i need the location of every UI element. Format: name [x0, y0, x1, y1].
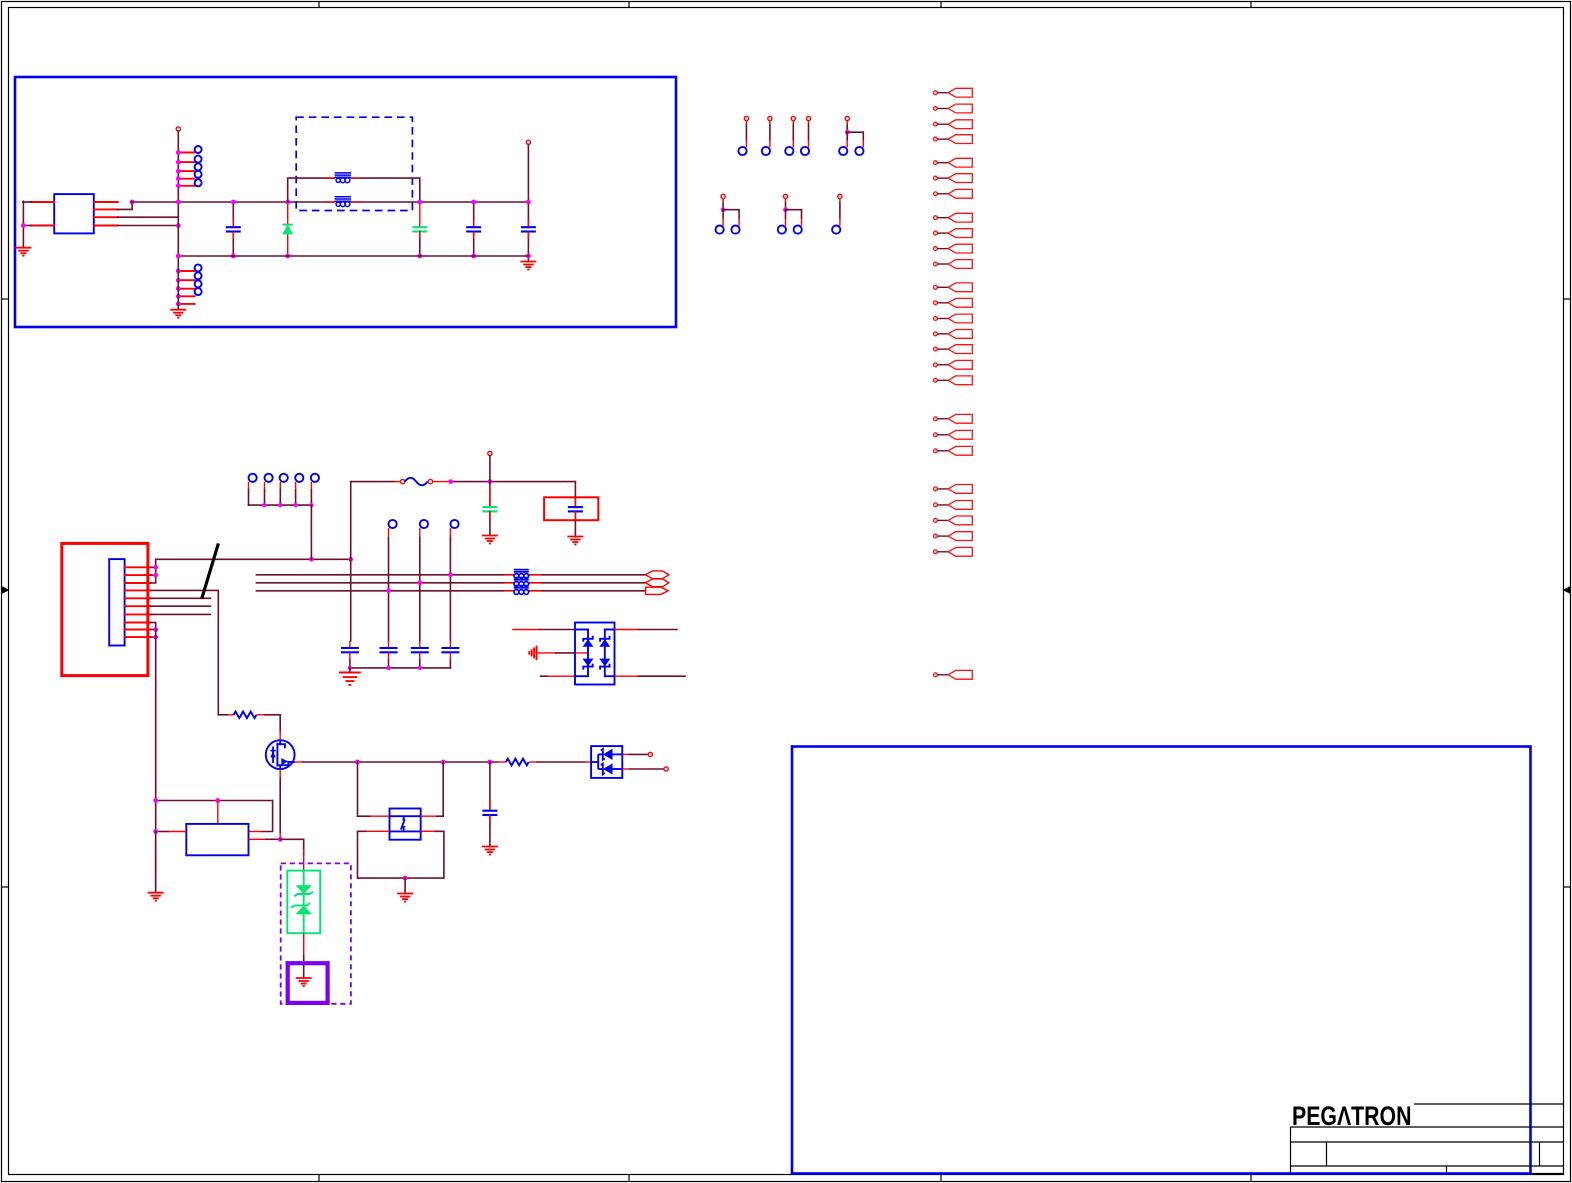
capacitor CF1: [349, 641, 351, 648]
zone tick top 1: [318, 1, 320, 8]
mount hole MH1: [744, 116, 748, 120]
wire TP6 drop: [388, 538, 390, 641]
center arrow left: [2, 586, 10, 594]
capacitor CY (green): [482, 507, 497, 511]
net flag 19: [934, 414, 973, 423]
TP6-8 red leads: [389, 528, 451, 538]
node junction bus drop: [309, 557, 314, 562]
net flag 21: [934, 446, 973, 455]
zone tick top 2: [628, 1, 630, 8]
wire pin7 line (cut): [150, 613, 210, 615]
title block line top: [1414, 1103, 1564, 1105]
net arrow tag 3: [646, 587, 668, 594]
node junction opto gnd: [403, 876, 408, 881]
node junction fuse out: [448, 479, 453, 484]
wire CN1 pin4 stub: [94, 225, 118, 227]
wire regulator top run: [156, 800, 273, 802]
wire U2 left pin: [168, 831, 186, 833]
mount hole MH5 (double): [845, 116, 849, 120]
opto inner marks: [401, 816, 405, 831]
choke T1 upper winding: [335, 173, 351, 183]
net flag 11: [934, 260, 973, 269]
wire AC top run: [156, 558, 351, 560]
wire top rail: [131, 201, 335, 203]
transistor Q1 (MOSFET): [266, 740, 295, 769]
net flag 24: [934, 516, 973, 525]
wire TP7 drop: [419, 538, 421, 641]
fuse F1: [400, 479, 404, 483]
wire pin5 line (cut): [150, 597, 210, 599]
node junction filter drop: [348, 557, 353, 562]
node junction pin2: [153, 573, 158, 578]
zener pack body (green): [287, 871, 320, 934]
Q1 body diode: [270, 751, 275, 758]
red box (X-cap): [544, 497, 598, 520]
resistor R2 (output): [498, 761, 506, 763]
inductor L2 stubs: [178, 271, 194, 304]
TP red leads: [249, 482, 312, 490]
node dots TP bus: [262, 503, 313, 507]
node junction C3 top: [471, 200, 476, 205]
wire zener to purple ground: [303, 933, 305, 956]
bridge diode top-right: [599, 639, 610, 647]
net flag 1: [934, 88, 973, 97]
CN2 pin stubs: [125, 567, 151, 637]
wire left vertical down: [155, 630, 157, 893]
terminal circle top of L1: [176, 127, 180, 131]
wire 3phase line2: [256, 582, 513, 584]
net flag 9: [934, 229, 973, 238]
ground G2: [520, 262, 536, 270]
zone tick right 1: [1564, 298, 1572, 300]
node junction U2 ref: [215, 798, 220, 803]
wire Q1 bottom: [279, 769, 281, 778]
ground G4: [482, 536, 498, 544]
opto U3 body: [390, 809, 421, 840]
resistor R1 (gate): [218, 714, 227, 716]
zener center line: [303, 871, 305, 934]
connector CN1 body: [54, 194, 94, 233]
net flag 15: [934, 330, 973, 339]
node dots L1: [176, 150, 181, 188]
net flag 20: [934, 430, 973, 439]
wire pin8-10 tie: [150, 623, 155, 630]
wire 3phase line3: [256, 590, 513, 592]
Q1 arrow: [281, 758, 288, 765]
net flag 25: [934, 532, 973, 541]
mount hole MH3: [791, 116, 795, 120]
mount hole MH8: [838, 194, 842, 198]
node junction pin9: [153, 627, 158, 632]
capacitor C1: [232, 202, 234, 227]
choke T1 lower winding: [335, 197, 351, 207]
wire Q1 source right: [295, 761, 304, 763]
choke T2 red stubs: [505, 575, 542, 591]
test point circles TP6-TP8: [389, 520, 459, 528]
wire Y-cap vertical: [489, 456, 491, 508]
net flag 3: [934, 120, 973, 129]
ground G9: [397, 894, 413, 902]
terminal circle right: [526, 140, 530, 144]
capacitor CF3: [419, 641, 421, 648]
test point circles TP1-TP5: [249, 474, 320, 482]
terminal circle out bottom: [664, 767, 668, 771]
wire TP8 drop: [449, 538, 451, 641]
title block bottom right line: [1531, 1173, 1564, 1175]
node junction line2-TP7: [417, 580, 422, 585]
zone tick left 1: [1, 298, 9, 300]
wire left drop to ground: [22, 201, 24, 248]
zone tick top 3: [940, 1, 942, 8]
node junction bottom-rail left: [176, 254, 181, 259]
ground G1: [15, 248, 31, 256]
net flag 16: [934, 345, 973, 354]
net flag 8: [934, 213, 973, 222]
diode D1 (green TVS): [287, 202, 289, 225]
connector CN2 red box: [62, 543, 148, 675]
zone tick bottom 2: [628, 1175, 630, 1183]
node junction Y-cap tap: [488, 479, 493, 484]
zone tick bottom 1: [318, 1175, 320, 1183]
wire choke loop: [288, 178, 335, 202]
wire MOSFET drain drop: [279, 715, 281, 731]
bridge out bottom: [615, 675, 639, 677]
zener D3: [296, 905, 312, 914]
net flag 14: [934, 314, 973, 323]
wire TP bus drop: [310, 505, 312, 559]
node junction C3 bottom: [471, 254, 476, 259]
zone tick bottom 3: [940, 1175, 942, 1183]
wire pin6 line (cut): [150, 605, 210, 607]
bridge diode top-left: [583, 639, 594, 647]
terminal circle above Y-cap: [488, 451, 492, 455]
regulator U2 body: [186, 824, 248, 855]
purple box: [288, 963, 328, 1003]
wire right terminal drop: [527, 144, 529, 227]
node junction C4 bottom: [526, 254, 531, 259]
wire to zener: [280, 839, 304, 855]
title block line mid: [1291, 1141, 1564, 1143]
zone tick right 2: [1564, 886, 1572, 888]
net arrow tag 1: [645, 571, 669, 579]
terminal circle out top: [648, 752, 652, 756]
capacitor CX: [568, 507, 583, 511]
choke T1 upper red stubs: [326, 177, 335, 179]
wire CN1 pin2 stub: [94, 208, 118, 210]
wire chassis to bridge: [537, 652, 557, 654]
blue box 2 (notes area): [792, 747, 1531, 1174]
node junction left rail top: [153, 798, 158, 803]
node junction U2 out: [278, 837, 283, 842]
net flag 6: [934, 174, 973, 183]
capacitor C5: [489, 762, 491, 811]
wire U2 out pin: [249, 838, 267, 840]
title block line under logo: [1291, 1126, 1564, 1128]
wire CN1 pin3 stub: [94, 216, 118, 218]
net flag 5: [934, 158, 973, 167]
zone tick left 2: [1, 886, 9, 888]
wire fuse out: [433, 481, 451, 483]
ground G5: [567, 537, 583, 545]
ground G8 (in purple box): [296, 978, 312, 986]
cut slash mark: [202, 543, 219, 598]
title block small tick: [1446, 1166, 1448, 1174]
zone tick bottom 4: [1250, 1175, 1252, 1183]
node junction pin1: [153, 565, 158, 570]
net flag 2: [934, 104, 973, 113]
diode pack DB1 body: [591, 746, 622, 778]
zone tick top 4: [1250, 1, 1252, 8]
wire U2 ref drop: [217, 801, 219, 824]
net arrow tag 2: [645, 579, 669, 587]
bridge BD1 feed bottom: [541, 675, 548, 677]
mount hole MH2: [768, 116, 772, 120]
capacitor C4: [527, 220, 529, 227]
choke T2 winding c: [514, 586, 529, 595]
wire opto top-right: [421, 815, 437, 817]
node junction C1 top: [231, 200, 236, 205]
wire pin4 to riser: [118, 225, 179, 227]
choke T1 lower red stubs: [326, 201, 335, 203]
capacitor C2 (green): [419, 202, 421, 227]
capacitor C3: [473, 202, 475, 227]
opto inner dividers: [390, 815, 421, 817]
node junction line1-TP8: [448, 572, 453, 577]
net flag 22: [934, 485, 973, 494]
bridge diode bottom-left: [583, 659, 594, 667]
node junction source net c: [488, 760, 493, 765]
wire DB1 out top: [622, 753, 630, 755]
inductor L2 coils: [195, 264, 202, 295]
net flag 18: [934, 376, 973, 385]
mount hole MH6 (double): [721, 194, 725, 198]
title block left vertical: [1290, 1127, 1292, 1174]
net flag 7: [934, 189, 973, 198]
node junction C4 top: [526, 200, 531, 205]
inductor L1 stubs: [178, 153, 194, 186]
connector CN2 body: [109, 559, 124, 645]
node junction left rail mid: [153, 829, 158, 834]
bridge inner legs: [575, 630, 615, 677]
mount hole MH7 (double): [783, 194, 787, 198]
node junction: [21, 223, 26, 228]
wire DB1 out bottom: [622, 768, 630, 770]
node junction D1 top: [285, 200, 290, 205]
node junction line3-TP6: [386, 588, 391, 593]
node junction source net a: [355, 760, 360, 765]
inductor L1 coils: [195, 146, 202, 186]
capacitor CF2: [388, 641, 390, 648]
node junction source net b: [441, 760, 446, 765]
node dots L2: [176, 269, 181, 307]
wire L2 vertical to ground: [177, 256, 179, 310]
choke T2 winding a: [514, 570, 529, 579]
chassis ground: [529, 646, 536, 661]
ground G3: [170, 310, 186, 318]
capacitor CF4: [449, 641, 451, 648]
wire TP bus: [249, 504, 312, 506]
node junction D1 bottom: [285, 254, 290, 259]
node junction pin4: [176, 223, 181, 228]
zener D2: [296, 885, 312, 894]
dashed purple box: [281, 863, 351, 1003]
mount hole MH4: [806, 116, 810, 120]
node junction C2 bottom: [417, 254, 422, 259]
DB1 diode top: [603, 749, 613, 760]
net flag 10: [934, 244, 973, 253]
center arrow right: [1563, 586, 1571, 594]
net flag 27: [934, 670, 973, 679]
bridge out top: [615, 629, 639, 631]
wire bottom rail: [178, 255, 528, 257]
node junction rail-L1: [176, 200, 181, 205]
title block right vertical: [1539, 1142, 1541, 1166]
title block line low: [1291, 1165, 1564, 1167]
wire 3phase line1: [256, 574, 513, 576]
title block divider vertical: [1326, 1142, 1328, 1166]
net flag 4: [934, 135, 973, 144]
net flag 12: [934, 283, 973, 292]
net flag 23: [934, 501, 973, 510]
wire opto bottom loop left: [366, 830, 390, 832]
bridge BD1 body: [575, 623, 615, 685]
blue box 1 (power input filter): [15, 77, 676, 327]
node junction pin1: [130, 200, 135, 205]
wire opto gnd drop: [404, 878, 406, 893]
ground G7: [155, 832, 157, 893]
wire pin2 riser: [118, 202, 132, 209]
node junction pin10: [153, 635, 158, 640]
wire pin3 to riser: [118, 216, 179, 218]
node dots cap bus: [348, 666, 422, 670]
wire CN1 pin1 stub: [94, 201, 118, 203]
wire fuse feed: [351, 481, 394, 483]
bridge BD1 feed top: [512, 629, 540, 631]
ground G6: [339, 673, 361, 685]
choke T2 winding b: [514, 578, 529, 587]
wire loop right: [262, 801, 273, 832]
wire pin4 line: [150, 590, 218, 714]
wire filter riser: [350, 482, 352, 560]
dashed box (common mode choke block): [296, 117, 412, 210]
net flag 26: [934, 547, 973, 556]
wire CN1 left pin1: [31, 201, 55, 203]
wire CN1 left pin2: [31, 225, 55, 227]
TP maroon drops: [249, 490, 312, 505]
bridge diode bottom-right: [599, 659, 610, 667]
ground G10: [482, 847, 498, 855]
wire X-cap drop: [574, 482, 576, 508]
node junction C2 top: [417, 200, 422, 205]
wire inductor stack vertical: [177, 131, 179, 256]
wire cap bottom bus: [350, 667, 451, 669]
DB1 diode bottom: [603, 763, 613, 774]
DB1 inner: [591, 754, 622, 769]
net flag 13: [934, 298, 973, 307]
node junction C1 bottom: [231, 254, 236, 259]
wire pin1-3 tie: [150, 559, 155, 583]
wire opto top-left: [370, 815, 390, 817]
net flag 17: [934, 360, 973, 369]
